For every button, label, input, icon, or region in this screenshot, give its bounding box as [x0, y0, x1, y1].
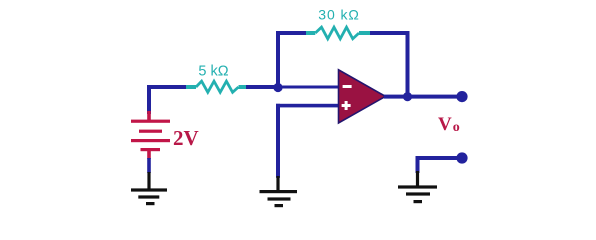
node A (summing junction dot) — [273, 83, 282, 92]
wire: non-inverting vertical down to ground — [276, 104, 280, 178]
terminal dot: bottom right — [456, 152, 467, 163]
wire: op-amp output to terminal — [384, 95, 462, 99]
wire: left vertical from main wire down to battery — [147, 85, 151, 114]
svg-text:2V: 2V — [173, 126, 199, 150]
wire: feedback top horizontal right segment — [370, 31, 410, 35]
resistor R2 30 kΩ (teal leads + zigzag) — [306, 27, 370, 39]
wire: feedback right vertical down to output node — [406, 31, 410, 97]
wire: feedback top horizontal left segment — [276, 31, 307, 35]
wire: battery negative to ground (blue segment) — [147, 158, 151, 173]
battery V1 (2V source) — [131, 111, 170, 159]
op-amp U1 — [339, 70, 386, 123]
ground (below battery) — [131, 172, 167, 205]
svg-text:30 kΩ: 30 kΩ — [318, 7, 359, 23]
ground (bottom right reference) — [398, 171, 437, 203]
wire: inverting input from node to op-amp — [278, 86, 339, 89]
svg-text:5 kΩ: 5 kΩ — [198, 64, 228, 80]
wire: bottom-right terminal horizontal — [416, 156, 463, 160]
node B (output junction dot) — [403, 92, 412, 101]
wire: from 5k resistor to summing node — [246, 85, 280, 89]
terminal dot: output Vo — [456, 91, 467, 102]
wire: non-inverting input horizontal — [276, 104, 339, 108]
resistor R1 5 kΩ (teal leads + zigzag) — [186, 81, 246, 92]
wire: bottom-right vertical to ground — [416, 156, 420, 173]
wire: feedback vertical up from node — [276, 31, 280, 88]
wire: main horizontal left segment to 5k resistor — [147, 85, 187, 89]
ground (non-inverting input) — [260, 176, 298, 207]
